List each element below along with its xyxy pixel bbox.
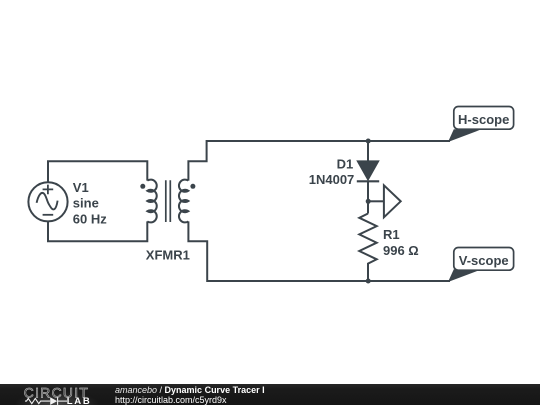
svg-text:1N4007: 1N4007	[309, 172, 355, 187]
svg-text:V-scope: V-scope	[459, 253, 509, 268]
svg-text:sine: sine	[73, 196, 99, 211]
svg-text:D1: D1	[337, 157, 354, 172]
svg-text:V1: V1	[73, 180, 89, 195]
svg-text:996 Ω: 996 Ω	[383, 243, 419, 258]
svg-text:XFMR1: XFMR1	[146, 247, 190, 262]
svg-text:60 Hz: 60 Hz	[73, 211, 107, 226]
svg-text:LAB: LAB	[67, 395, 92, 405]
svg-text:R1: R1	[383, 227, 400, 242]
svg-text:H-scope: H-scope	[458, 112, 509, 127]
